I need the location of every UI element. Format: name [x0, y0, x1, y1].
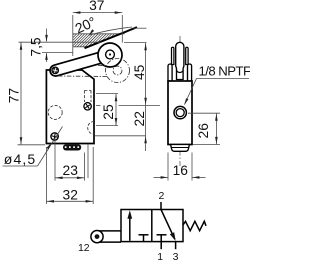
lever axle pins (side view): [172, 47, 174, 64]
label diameter 4,5: [3, 165, 38, 167]
svg-text:16: 16: [173, 163, 189, 178]
dimension 26: [188, 112, 220, 114]
svg-text:22: 22: [132, 111, 147, 126]
angle reference line: [134, 27, 147, 29]
svg-text:26: 26: [196, 123, 211, 139]
roller bottom arc (side view): [177, 71, 183, 73]
svg-text:1: 1: [157, 251, 163, 263]
svg-text:32: 32: [63, 187, 78, 202]
svg-text:25: 25: [101, 104, 116, 120]
symbol roller actuator: [97, 230, 121, 232]
hidden recess (dashed): [88, 122, 94, 135]
dimension 22: [95, 135, 146, 137]
svg-text:45: 45: [132, 64, 147, 80]
svg-text:23: 23: [63, 163, 79, 178]
cam (hatched actuating dog): [73, 34, 121, 47]
svg-text:ø4,5: ø4,5: [4, 151, 36, 167]
valve symbol boxes: [121, 210, 183, 242]
hidden bore (dashed): [48, 105, 62, 119]
dimension 77: [20, 42, 22, 144]
svg-text:2: 2: [158, 190, 164, 202]
right box blocked port 1: [157, 234, 167, 236]
svg-text:3: 3: [173, 251, 179, 263]
lever arm: [50, 49, 115, 75]
right box flow path 2-3: [161, 210, 175, 240]
mounting hole: [51, 133, 58, 140]
port 1 line: [160, 242, 162, 250]
return spring: [183, 221, 206, 230]
svg-text:12: 12: [78, 242, 90, 254]
dimension 23: [54, 141, 56, 181]
port boss circles: [174, 106, 186, 118]
hidden plunger guide (dashed): [83, 91, 85, 103]
dimension 37: [72, 15, 74, 56]
left box flow arrow: [129, 213, 131, 241]
svg-text:7,5: 7,5: [29, 37, 44, 57]
svg-text:77: 77: [6, 88, 21, 103]
roller: [98, 43, 122, 67]
svg-text:37: 37: [89, 0, 104, 13]
plunger pin: [84, 103, 91, 110]
fork plates (side view): [168, 64, 172, 81]
phantom lever (pressed position): [58, 75, 108, 78]
lever pivot screw: [52, 67, 59, 74]
roller hub: [106, 50, 115, 59]
cam ramp surface line (20 deg): [85, 27, 138, 48]
svg-text:1/8 NPTF: 1/8 NPTF: [199, 63, 251, 78]
roller (side view): [176, 42, 184, 79]
port 2 line: [160, 202, 162, 210]
dimension 7,5: [19, 41, 102, 43]
dimension 16: [167, 153, 169, 181]
dimension 45: [119, 104, 161, 106]
dimension 32: [45, 147, 47, 204]
phantom roller: [106, 59, 130, 83]
hidden port line: [87, 144, 89, 178]
valve body (side view): [168, 81, 192, 145]
valve body (front view): [46, 70, 94, 144]
port 3 line: [175, 242, 177, 250]
left box blocked port: [139, 234, 149, 236]
centerline (side view): [179, 36, 181, 166]
dimension 25: [96, 93, 118, 95]
bottom plug (side view): [171, 145, 190, 152]
bottom port plug (front view): [63, 144, 81, 150]
